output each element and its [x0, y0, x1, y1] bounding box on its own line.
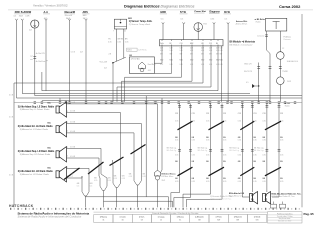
svg-text:0.35: 0.35 [238, 154, 241, 156]
wire drop p5 [202, 46, 204, 83]
svg-text:C13: C13 [206, 113, 209, 115]
svg-text:20: 20 [124, 30, 126, 32]
wire cup GBR [162, 22, 165, 24]
wire spk3 bottom [67, 157, 100, 159]
pair2 routing [210, 181, 212, 194]
svg-text:2-8: 2-8 [29, 30, 32, 32]
svg-text:0.35: 0.35 [125, 42, 128, 44]
svg-text:Versão / Version 3007/02: Versão / Version 3007/02 [33, 4, 68, 8]
svg-text:C13: C13 [209, 48, 212, 50]
svg-text:3) Altavoz Int. LD Delant. Rad: 3) Altavoz Int. LD Delant. Radio [20, 173, 50, 176]
svg-text:0.35: 0.35 [180, 64, 183, 66]
pair column 3 wires [241, 103, 243, 181]
svg-text:0.35: 0.35 [220, 64, 223, 66]
svg-text:● Verde: ● Verde [254, 216, 261, 219]
svg-text:Radio: Radio [256, 21, 261, 23]
wire right col 2 [269, 54, 271, 102]
svg-text:Potencia: Potencia [284, 38, 291, 41]
antenna wire bottom [279, 85, 281, 102]
wire collector 1 [86, 196, 169, 198]
wire drop x66 [65, 101, 67, 102]
svg-text:0.35: 0.35 [223, 154, 226, 156]
svg-text:57 W: 57 W [180, 11, 186, 14]
svg-text:C13: C13 [223, 113, 226, 115]
wire fuse down [197, 31, 199, 39]
svg-text:0.35: 0.35 [160, 64, 163, 66]
wire spk1 top [67, 103, 158, 105]
wire cup 30W right [227, 22, 230, 24]
svg-text:31: 31 [102, 220, 104, 222]
svg-text:0.35: 0.35 [238, 120, 241, 122]
svg-text:C13: C13 [192, 113, 195, 115]
svg-text:0.35: 0.35 [220, 50, 223, 52]
svg-text:0.35: 0.35 [117, 42, 121, 44]
svg-text:SB: Rad. Lig.: SB: Rad. Lig. [229, 150, 239, 152]
wire cup A-A [45, 19, 48, 21]
pair column 3 slash top [240, 121, 254, 130]
antenna wire mid [279, 59, 281, 77]
svg-text:Rádio: Rádio [285, 105, 290, 107]
wire rail y98 [17, 97, 303, 99]
wire rail y63 [154, 62, 162, 64]
svg-text:LR1: LR1 [201, 43, 204, 45]
wire feed1 down [16, 20, 18, 98]
svg-text:0.35: 0.35 [262, 181, 265, 183]
svg-text:12V Perm.: 12V Perm. [138, 50, 147, 52]
svg-text:Ac.Rád Kont: Ac.Rád Kont [36, 60, 46, 63]
svg-text:1) Sensor Temp. Amb.: 1) Sensor Temp. Amb. [129, 23, 151, 26]
svg-text:MB2: MB2 [160, 59, 163, 61]
wire collector 2 [104, 200, 173, 202]
svg-text:0.5: 0.5 [225, 18, 228, 20]
sensor box B21 [114, 19, 126, 29]
svg-text:0.5 GB: 0.5 GB [70, 122, 75, 124]
svg-text:/ Diagramas Eléctricos: / Diagramas Eléctricos [158, 4, 195, 8]
pair column 3 slash bottom [240, 167, 254, 176]
svg-text:C13: C13 [180, 43, 183, 45]
svg-text:3) Altavoz Sup. LD Delant. Rad: 3) Altavoz Sup. LD Delant. Radio [20, 153, 51, 156]
right border [301, 14, 303, 207]
speaker B5 [56, 151, 59, 158]
svg-text:30: 30 [122, 220, 124, 222]
relay left pin wire [266, 31, 268, 50]
svg-text:0.35: 0.35 [201, 64, 204, 66]
svg-text:0.5: 0.5 [77, 186, 79, 188]
wire drop p6 [210, 46, 212, 87]
svg-text:SB: Rad. Lig.: SB: Rad. Lig. [198, 150, 208, 152]
svg-text:MB2: MB2 [180, 59, 183, 61]
fuse F24 [194, 23, 203, 32]
harness band [14, 102, 302, 104]
wire antenna down [34, 28, 36, 96]
svg-text:C13: C13 [175, 113, 178, 115]
svg-text:Desl.Reg: Desl.Reg [148, 64, 155, 66]
svg-text:MB2: MB2 [209, 59, 212, 61]
svg-text:0.5: 0.5 [246, 82, 249, 84]
svg-text:C13: C13 [262, 113, 265, 115]
pair1 routing [179, 181, 181, 193]
svg-text:● Preto: ● Preto [216, 216, 222, 219]
speaker B3 [56, 106, 59, 113]
tweeter speaker B10 [155, 170, 161, 176]
antenna motor M2 [277, 77, 285, 85]
svg-text:GBR: GBR [160, 11, 166, 14]
wire rail y100.5 [42, 100, 270, 102]
svg-text:12V 5V Ant.: 12V 5V Ant. [131, 58, 141, 61]
svg-text:3) Alto-falant Int. LD Diant.: 3) Alto-falant Int. LD Diant. Rádio [18, 170, 54, 173]
footer cells [94, 215, 113, 223]
pair3 routing [241, 181, 243, 197]
wire Massa down [69, 20, 71, 102]
svg-text:0.35: 0.35 [262, 140, 265, 142]
svg-text:0.35: 0.35 [160, 50, 163, 52]
svg-text:0.35: 0.35 [238, 181, 241, 183]
svg-text:B12a Altavoz LI: B12a Altavoz LI [229, 194, 242, 197]
pair column 2 slash bottom [209, 167, 225, 176]
footer legend box [268, 212, 303, 223]
wire drop p4 [191, 46, 193, 81]
svg-text:HATCHBACK: HATCHBACK [9, 204, 34, 208]
slash spk3 [88, 162, 104, 174]
wire ABS down [85, 20, 87, 102]
svg-text:B12b Altavoz Radio LD, Tras.: B12b Altavoz Radio LD, Tras. [272, 195, 296, 198]
svg-text:31-2: 31-2 [162, 180, 166, 182]
wire spk4 bottom [67, 177, 83, 179]
svg-text:MB2: MB2 [220, 59, 223, 61]
svg-text:C) Encosto Radio LD Tras.: C) Encosto Radio LD Tras. [210, 198, 232, 201]
svg-text:0.35: 0.35 [280, 181, 283, 183]
svg-text:C13: C13 [170, 48, 173, 50]
svg-text:Power Slot: Power Slot [195, 10, 207, 13]
svg-text:C13: C13 [201, 48, 204, 50]
pair4 routing [266, 181, 268, 192]
svg-text:a-n: a-n [30, 59, 33, 61]
wire rail y87 [117, 86, 211, 88]
wire spk2 top [67, 122, 142, 124]
connector box bottom 2 [280, 204, 286, 208]
pair column 4 wires [266, 103, 268, 181]
pair column 4 slash top [265, 121, 281, 130]
wire feed2 down [21, 20, 23, 93]
svg-text:B2: B2 [129, 55, 131, 57]
svg-text:0.35: 0.35 [253, 140, 256, 142]
wire drop p7 [217, 46, 219, 91]
svg-text:3) Alto-falant Int. LE Diant.: 3) Alto-falant Int. LE Diant. Rádio [18, 125, 54, 128]
svg-text:0.35: 0.35 [94, 180, 97, 182]
svg-text:Massa/M: Massa/M [65, 11, 75, 14]
wire cup Diagnose [213, 22, 216, 24]
svg-text:B4: B4 [216, 43, 218, 45]
svg-text:0.35: 0.35 [201, 50, 204, 52]
svg-text:0.35: 0.35 [114, 178, 117, 180]
svg-text:B10 Ant. Masa: B10 Ant. Masa [162, 175, 174, 178]
svg-text:0.35: 0.35 [122, 178, 125, 180]
svg-text:0.35: 0.35 [192, 140, 195, 142]
speaker B12a [250, 194, 253, 202]
wire drop p2 [171, 46, 173, 74]
svg-text:7: 7 [113, 30, 114, 32]
pair column 2 slash top [209, 121, 225, 130]
svg-text:S201: S201 [127, 50, 131, 52]
svg-text:0.35: 0.35 [192, 181, 195, 183]
svg-text:0.35: 0.35 [223, 181, 226, 183]
svg-text:B10 Ant. Massa: B10 Ant. Massa [162, 173, 177, 176]
svg-text:0.35: 0.35 [211, 18, 215, 20]
svg-text:SW: SW [217, 220, 220, 222]
slash spk4 [64, 168, 80, 180]
svg-text:150R: 150R [287, 81, 292, 83]
header rule [8, 9, 313, 11]
svg-text:0.35: 0.35 [175, 181, 178, 183]
svg-text:Antena Eléctr.: Antena Eléctr. [235, 22, 248, 25]
svg-text:1) Sensor Temp. Amb.: 1) Sensor Temp. Amb. [129, 20, 153, 23]
svg-text:B2: B2 [170, 43, 172, 45]
svg-text:● Amarelo: ● Amarelo [195, 216, 204, 219]
svg-text:VCC-12V: VCC-12V [100, 62, 108, 64]
svg-text:0.35: 0.35 [262, 154, 265, 156]
svg-text:0.5: 0.5 [14, 16, 17, 18]
svg-text:58: 58 [141, 220, 143, 222]
svg-text:C2: C2 [282, 48, 284, 50]
svg-text:30W: 30W [26, 11, 32, 14]
svg-text:0.5: 0.5 [161, 18, 164, 20]
wire 30W right down [227, 24, 229, 102]
svg-text:15: 15 [160, 220, 162, 222]
wire cup Massa [68, 19, 71, 21]
speaker B6 [56, 171, 59, 178]
sensor wire 2 [123, 29, 125, 58]
svg-text:0.35: 0.35 [175, 154, 178, 156]
svg-text:C13: C13 [209, 43, 212, 45]
svg-text:0.35: 0.35 [180, 50, 183, 52]
svg-text:MB2: MB2 [190, 43, 193, 45]
svg-text:B6 Módulo ⇒| Conductor: B6 Módulo ⇒| Conductor [230, 43, 253, 46]
svg-text:Diagramas Elétricos: Diagramas Elétricos [124, 4, 159, 8]
svg-text:3) Alto-falant Sup. LE Diant.: 3) Alto-falant Sup. LE Diant. Rádio [18, 105, 55, 108]
connector box bottom 1 [271, 204, 277, 208]
svg-text:GND 12V: GND 12V [244, 64, 252, 66]
antenna relay box [266, 18, 287, 31]
wire cup ABS [85, 19, 88, 21]
svg-text:30-R: 30-R [19, 16, 24, 18]
svg-text:TN/BR: TN/BR [282, 71, 288, 73]
pair column 2 connector [209, 148, 212, 150]
svg-text:● Massa: ● Massa [100, 217, 108, 219]
speaker B4 [56, 126, 59, 133]
wire spk3 top [67, 147, 102, 149]
wire cup feed1 [15, 19, 18, 21]
pair column 1 wires [179, 103, 181, 181]
pair column 1 slash top [178, 121, 193, 130]
svg-text:0.35: 0.35 [190, 50, 193, 52]
wire spk4 top [67, 167, 90, 169]
svg-text:0.35: 0.35 [129, 176, 132, 178]
wire rail y93.5 [22, 93, 250, 95]
amplifier rail bottom [154, 72, 171, 74]
svg-text:0.35: 0.35 [253, 181, 256, 183]
svg-text:3) Alto-falant Sup. LD Diant.: 3) Alto-falant Sup. LD Diant. Rádio [18, 150, 55, 153]
ground wire left [13, 83, 15, 207]
svg-text:0.35: 0.35 [190, 64, 193, 66]
svg-text:C13: C13 [180, 48, 183, 50]
svg-text:0.35: 0.35 [280, 154, 283, 156]
svg-text:Sección 1.5 mm²: Sección 1.5 mm² [278, 220, 292, 223]
svg-text:Massa/M: Massa/M [65, 15, 73, 17]
svg-text:2-8: 2-8 [104, 67, 107, 69]
svg-text:0.35: 0.35 [280, 140, 283, 142]
svg-text:0.35: 0.35 [262, 120, 265, 122]
svg-text:0.5: 0.5 [90, 186, 92, 188]
svg-text:0.35: 0.35 [142, 176, 145, 178]
amplifier box [129, 57, 154, 74]
pair column 4 slash bottom [265, 167, 281, 176]
svg-text:C13: C13 [190, 48, 193, 50]
sensor junction wire [112, 57, 126, 63]
svg-text:● Carga: ● Carga [158, 216, 166, 219]
svg-text:0.5 GB: 0.5 GB [70, 147, 75, 149]
svg-text:0.35: 0.35 [206, 181, 209, 183]
wire spk2 bottom [67, 132, 135, 134]
pair column 4 connector [266, 148, 269, 150]
speaker B12b [263, 194, 266, 202]
svg-text:GR/TN: GR/TN [117, 38, 123, 40]
wire cup 57W [182, 22, 185, 24]
antenna motor M1 [277, 52, 285, 60]
wire Diagnose down [213, 24, 215, 40]
svg-text:Sistema de Radio/Audio e Infor: Sistema de Radio/Audio e Informaciones d… [18, 215, 82, 219]
footer legend header [94, 211, 268, 213]
svg-text:0.5 GB: 0.5 GB [144, 100, 150, 102]
svg-text:3) Altavoz Sup. LI Delant. Rad: 3) Altavoz Sup. LI Delant. Radio [20, 108, 50, 111]
wire A-A down [45, 20, 47, 90]
wire rail y81 [122, 80, 192, 82]
sensor wire 1 [115, 29, 117, 61]
svg-text:C13: C13 [280, 113, 283, 115]
svg-text:A-A: A-A [44, 11, 49, 14]
svg-text:0.35: 0.35 [175, 120, 178, 122]
wire rail y77 [125, 76, 182, 78]
svg-text:0.35: 0.35 [223, 140, 226, 142]
pair column 3 connector [241, 148, 244, 150]
svg-text:MB2: MB2 [170, 59, 173, 61]
svg-text:0.5: 0.5 [71, 176, 73, 178]
pair column 1 connector [178, 148, 181, 150]
acc radio wire [41, 72, 43, 91]
svg-text:0.5R: 0.5R [25, 16, 30, 18]
svg-text:0.35: 0.35 [108, 42, 112, 44]
svg-text:MB2: MB2 [201, 59, 204, 61]
svg-text:30W: 30W [15, 11, 21, 14]
module B6 radio unit [160, 40, 224, 46]
svg-text:B6 Módulo ⇒| Motorista: B6 Módulo ⇒| Motorista [230, 41, 256, 44]
svg-text:0.35: 0.35 [209, 64, 212, 66]
svg-text:0.5: 0.5 [181, 18, 184, 20]
pair column 1 slash bottom [178, 167, 193, 176]
svg-text:0.35: 0.35 [192, 154, 195, 156]
diode marks [252, 84, 255, 88]
svg-text:● Massa: ● Massa [177, 217, 185, 219]
amplifier speaker glyph [139, 62, 146, 69]
slash spk2 [131, 145, 146, 155]
svg-text:0.35: 0.35 [253, 154, 256, 156]
svg-text:0.35: 0.35 [206, 120, 209, 122]
svg-text:0.35: 0.35 [238, 140, 241, 142]
pair column 2 wires [210, 103, 212, 181]
svg-text:2.8: 2.8 [109, 54, 112, 56]
svg-text:0.35: 0.35 [170, 64, 173, 66]
svg-text:Conector: Conector [257, 35, 265, 38]
wire right col 1 [258, 63, 260, 102]
svg-text:SB-75 PN: SB-75 PN [244, 71, 253, 73]
svg-text:F24: F24 [204, 23, 207, 25]
svg-text:C13: C13 [220, 48, 223, 50]
splice label S201 [127, 48, 138, 51]
svg-text:C13: C13 [238, 113, 241, 115]
svg-text:a-n: a-n [30, 56, 33, 58]
svg-text:SB: Rad. Lig.: SB: Rad. Lig. [254, 150, 264, 152]
svg-text:C13: C13 [160, 48, 163, 50]
antenna plug X1 [31, 20, 39, 28]
svg-text:31: 31 [179, 220, 181, 222]
wire rail y95.7 [35, 95, 302, 97]
svg-text:30A 60A CH 4: 30A 60A CH 4 [287, 60, 298, 63]
wire GBR down [162, 24, 164, 40]
svg-text:ABS: ABS [82, 14, 87, 17]
svg-text:● Ilum.: ● Ilum. [139, 217, 145, 219]
svg-text:0.35: 0.35 [175, 140, 178, 142]
svg-text:C13: C13 [253, 113, 256, 115]
svg-text:0.35: 0.35 [170, 50, 173, 52]
wire rail y83 long [14, 82, 203, 84]
svg-text:0.35: 0.35 [209, 50, 212, 52]
svg-text:● Marrom: ● Marrom [234, 216, 243, 219]
track number strip [10, 208, 11, 210]
wire spk1 bottom [67, 112, 121, 114]
svg-text:30 W: 30 W [224, 11, 230, 14]
wire drop p1 [161, 46, 163, 63]
wire rail drop x162 [161, 98, 163, 170]
svg-text:MB2: MB2 [190, 59, 193, 61]
svg-text:Diagnose: Diagnose [210, 11, 221, 13]
wire drop p3 [181, 46, 183, 77]
svg-text:0.35: 0.35 [206, 154, 209, 156]
wire rail y90.7 [42, 90, 218, 92]
svg-text:0.35: 0.35 [206, 140, 209, 142]
wire rail drop x146 [145, 96, 147, 197]
svg-text:Pag. 95: Pag. 95 [304, 212, 315, 216]
slash spk1 [110, 157, 124, 166]
svg-text:3) Altavoz Int. LI Delant. Rad: 3) Altavoz Int. LI Delant. Radio [20, 128, 49, 131]
svg-text:0.5 GB: 0.5 GB [70, 102, 75, 104]
svg-text:Corsa 2002: Corsa 2002 [279, 4, 301, 9]
svg-text:0.5 GN: 0.5 GN [153, 100, 159, 102]
svg-text:ABS: ABS [83, 11, 89, 14]
wire drop x60 [59, 98, 61, 102]
svg-text:0.35: 0.35 [108, 180, 111, 182]
svg-text:Ac.Rád 12V: Ac.Rád 12V [36, 52, 46, 55]
wire 57W down [183, 24, 185, 40]
svg-text:SB: Rad. Lig.: SB: Rad. Lig. [167, 150, 177, 152]
antenna wire down [279, 31, 281, 52]
wire cup feed2 [21, 19, 24, 21]
wire drop p8 [221, 46, 223, 102]
svg-text:● Curto: ● Curto [119, 216, 125, 219]
